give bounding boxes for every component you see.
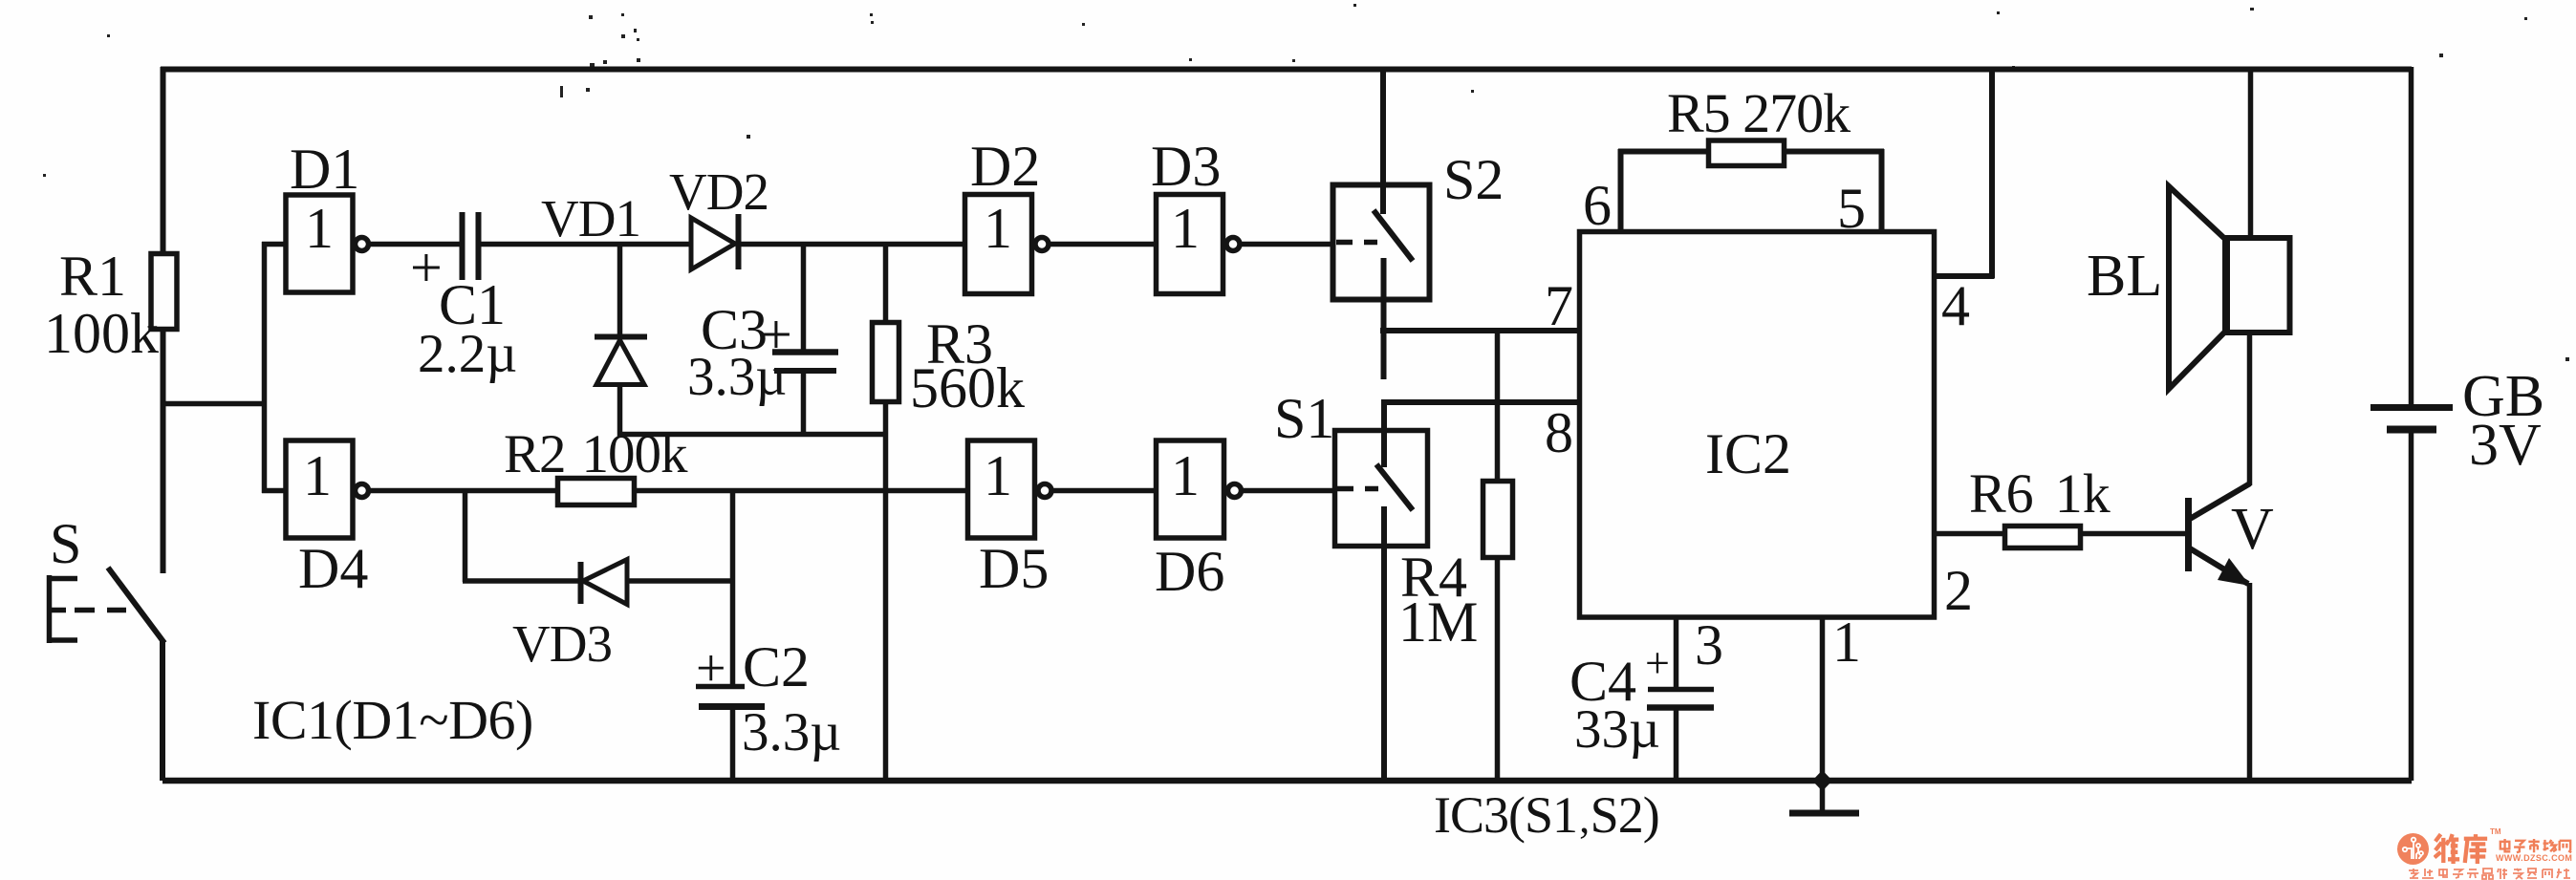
wire IC2 pin 2 — [1935, 531, 2005, 537]
wire IC2 pin 6 / R5 loop — [1618, 149, 1884, 231]
wire R2 to D5 — [634, 488, 968, 494]
label R4 — [1400, 548, 1467, 606]
label + of C2 — [696, 642, 726, 696]
label VD1 — [541, 192, 640, 245]
ground — [1789, 781, 1859, 813]
label IC1(D1~D6) — [252, 693, 533, 748]
label C2 — [743, 638, 810, 696]
label D1 — [290, 140, 359, 198]
wire top rail — [161, 67, 2412, 73]
wire left rail upper — [161, 67, 166, 255]
wire D4 to R2 — [368, 488, 558, 494]
diode VD2 — [691, 214, 739, 269]
label R2 100k — [504, 427, 687, 482]
IC chip U2 (IC2 box) — [1580, 232, 1935, 618]
analog switch S2 — [1333, 67, 1430, 379]
watermark logo — [2397, 833, 2429, 865]
wire IC2 pin 7 — [1380, 328, 1582, 333]
wire switch to bottom rail — [160, 641, 165, 781]
speaker BL — [2169, 67, 2290, 389]
label 1 inside D4 — [303, 447, 332, 504]
wire D5 to D6 — [1051, 488, 1157, 494]
resistor R3 — [873, 242, 899, 781]
label 1 inside D1 — [305, 200, 334, 257]
label 8 — [1545, 404, 1573, 461]
label 7 — [1545, 277, 1573, 334]
label BL — [2087, 247, 2162, 306]
watermark TM — [2490, 828, 2501, 836]
wire VD3 branch — [463, 490, 580, 582]
label GB — [2462, 367, 2544, 426]
NOT gate D5 — [968, 440, 1052, 538]
label 33u — [1574, 702, 1660, 757]
label R5 270k — [1667, 86, 1850, 141]
transistor V — [2189, 334, 2251, 781]
label 5 — [1837, 180, 1866, 237]
diode VD3 — [581, 560, 735, 605]
label 2 — [1944, 562, 1973, 619]
label R3 — [926, 315, 993, 373]
label R6 1k — [1969, 466, 2111, 522]
label 6 — [1583, 177, 1612, 234]
label 1 inside D5 — [984, 447, 1012, 504]
wire VD2 to D2 — [741, 242, 965, 247]
watermark slogan strokes — [2408, 868, 2576, 880]
switch S — [47, 568, 164, 643]
wire IC2 pin 1 — [1820, 615, 1826, 781]
label 2.2u — [418, 327, 517, 381]
label 3V — [2469, 416, 2542, 475]
capacitor C4 — [1647, 615, 1714, 781]
junction node dot — [1812, 770, 1832, 791]
wire R6 to transistor base — [2081, 531, 2188, 537]
label VD3 — [512, 617, 612, 670]
label + of C3 — [760, 306, 792, 363]
NOT gate D1 — [286, 195, 369, 292]
label IC2 — [1705, 425, 1791, 483]
wire left rail lower — [161, 329, 166, 573]
resistor R5 — [1709, 140, 1785, 166]
wire IC2 pin 8 — [1382, 399, 1582, 405]
label 3.3u (C3) — [687, 350, 787, 404]
wire junction bus VD1/C3/R3 — [617, 432, 887, 438]
label 1 inside D2 — [984, 200, 1012, 257]
label R1 — [59, 247, 126, 305]
capacitor C2 — [696, 488, 765, 781]
label 3 — [1695, 616, 1723, 674]
label 1M — [1398, 593, 1478, 651]
label D6 — [1155, 543, 1224, 600]
label 4 — [1941, 277, 1970, 334]
diode VD1 — [595, 244, 647, 437]
label V — [2231, 500, 2274, 559]
battery GB — [2370, 67, 2453, 781]
capacitor C3 — [772, 242, 838, 437]
label VD2 — [669, 165, 768, 218]
label 1 inside D6 — [1171, 447, 1200, 504]
watermark brand name (wei ku) — [2434, 833, 2489, 866]
NOT gate D6 — [1157, 440, 1242, 538]
wire D1 to C1 — [368, 242, 461, 247]
label S — [50, 515, 81, 572]
label D2 — [970, 138, 1040, 195]
label S2 — [1443, 151, 1504, 208]
label IC3(S1,S2) — [1434, 789, 1659, 841]
resistor R1 — [151, 254, 177, 330]
capacitor C1 — [463, 212, 479, 280]
wire D2 to D3 — [1049, 242, 1157, 247]
NOT gate D2 — [965, 195, 1050, 294]
label S1 — [1274, 390, 1334, 447]
label C3 — [701, 301, 768, 358]
watermark subtitle (dian zi shi chang wang) — [2497, 838, 2573, 857]
resistor R6 — [2005, 526, 2081, 548]
wire bottom rail — [162, 778, 2412, 784]
wire D6 to S1 — [1242, 488, 1336, 494]
label + of C4 — [1645, 641, 1670, 685]
label 3.3u (C2) — [742, 705, 841, 760]
wire IC2 pin 4 — [1935, 67, 1995, 278]
label 560k — [910, 359, 1025, 417]
resistor R4 — [1483, 329, 1513, 781]
NOT gate D4 — [286, 440, 369, 538]
wire input bus D1/D4 — [161, 242, 287, 493]
label C4 — [1569, 653, 1636, 710]
label D4 — [298, 540, 368, 597]
wire C1 to VD2 — [481, 242, 690, 247]
label 1 (pin) — [1832, 613, 1861, 671]
label C1 — [439, 276, 506, 333]
label 1 inside D3 — [1171, 200, 1200, 257]
resistor R2 — [558, 479, 635, 505]
NOT gate D3 — [1157, 195, 1241, 294]
label + of C1 — [410, 239, 443, 296]
analog switch S1 — [1335, 399, 1428, 781]
label D5 — [979, 540, 1049, 597]
label D3 — [1151, 138, 1221, 195]
wire D3 to S2 — [1240, 242, 1334, 247]
watermark www.dzsc.com — [2496, 854, 2572, 863]
label 100k (R1) — [44, 305, 159, 362]
